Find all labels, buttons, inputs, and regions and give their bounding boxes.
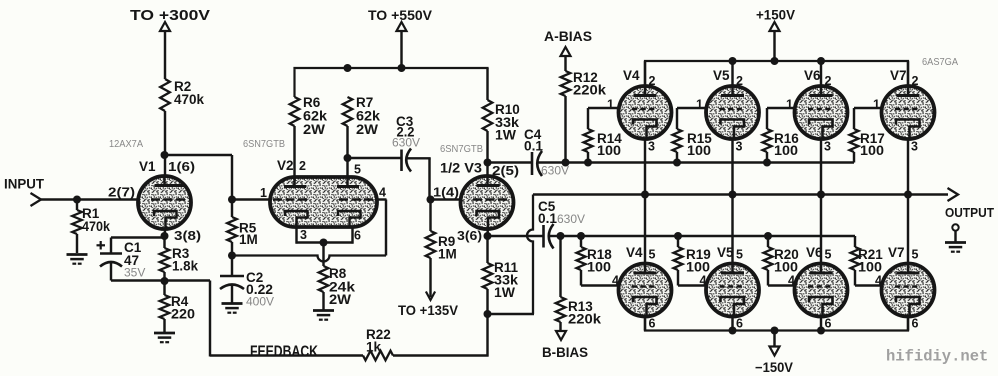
output riser with hop over C5 wire [527,195,533,315]
svg-text:3: 3 [824,140,831,154]
svg-text:100: 100 [774,143,798,158]
node V4 upper cathode on output rail [641,191,649,199]
svg-text:V7: V7 [888,245,905,260]
node R12 bias junction [562,159,570,167]
arrow to +135V [426,292,435,301]
svg-text:1.8k: 1.8k [172,259,198,274]
node V1 plate junction [161,151,169,159]
node brail feed [771,327,779,335]
node R5 top junction [228,196,236,204]
V3 plate [486,176,489,186]
svg-text:3: 3 [648,140,655,154]
svg-text:2(7): 2(7) [108,186,135,200]
svg-text:1: 1 [696,98,703,112]
svg-text:6: 6 [354,229,361,243]
resistor R3 [163,236,165,248]
svg-text:100: 100 [687,143,711,158]
svg-text:6: 6 [825,317,832,331]
wire grid to V3 [431,198,462,200]
resistor R9 [429,200,431,232]
node V3 plate junction [484,159,492,167]
wire plate node down to V3 [486,163,488,187]
svg-text:100: 100 [597,143,621,158]
resistor R5 [231,200,233,218]
svg-text:1W: 1W [495,128,516,143]
svg-text:2W: 2W [356,122,378,137]
wire V6 upper plate-cathode column [820,61,822,195]
wire V7 upper grid stub [854,107,884,109]
svg-text:hifidiy.net: hifidiy.net [886,348,988,366]
svg-text:100: 100 [686,260,710,275]
node rail V6 plate [817,57,825,65]
wire +300V to R2 [164,31,166,79]
resistor R4 [163,281,165,295]
node R19 on B-bias line [674,232,682,240]
V2 right triode plate [346,177,349,187]
svg-text:V2: V2 [277,158,294,173]
node brail V5 cathode [729,327,737,335]
node V1 cathode 3(8) [161,232,169,240]
V7 lower internals [907,264,910,274]
resistor R16 [766,108,768,129]
ground below R1 [67,253,88,256]
node feedback output junction [484,310,492,318]
wire V1 plate to V2 grid [165,154,233,156]
svg-text:V1: V1 [139,159,156,174]
svg-text:A-BIAS: A-BIAS [544,29,592,44]
wire A-bias line [539,161,855,163]
resistor R22 [363,351,393,361]
V5 upper internals [731,86,734,96]
wire +150V feed [773,31,775,61]
svg-text:6AS7GA: 6AS7GA [922,56,958,68]
node R20 on B-bias line [764,232,772,240]
wire V7 upper plate-cathode column [907,61,909,195]
svg-text:OUTPUT: OUTPUT [945,205,994,220]
wire V6 lower grid stub [768,284,797,286]
wire V7 lower plate-cathode column [907,195,909,331]
svg-text:400V: 400V [246,295,274,309]
ground below R8 [313,309,334,312]
resistor R15 [676,108,678,129]
V2 right triode grid dashes [339,198,374,200]
wire V5 lower plate-cathode column [731,195,733,331]
wire V4 upper grid stub [588,107,621,109]
node R3 R4 junction [161,277,169,285]
tube V2 envelope [270,177,377,227]
svg-text:TO +135V: TO +135V [398,303,458,318]
wire R2 to V1 plate [164,111,166,185]
node rail feed [771,57,779,65]
svg-text:1: 1 [260,186,267,200]
svg-text:1/2 V3: 1/2 V3 [440,161,483,176]
tube V7 lower [882,264,935,317]
svg-text:220k: 220k [573,83,607,98]
ground below R4 [154,332,175,335]
svg-text:3: 3 [911,140,918,154]
input arrow [31,193,42,206]
resistor R18 [577,247,586,270]
svg-text:1(6): 1(6) [168,160,195,174]
wire V3 cathode to C5 [488,235,543,237]
svg-text:470k: 470k [174,92,204,107]
V1 plate [163,176,166,186]
V1 cathode [154,211,177,229]
resistor R19 [674,247,683,270]
svg-text:6: 6 [649,317,656,331]
node R16 on A-bias line [763,159,771,167]
svg-text:3: 3 [736,140,743,154]
wire +550V to bus [400,31,402,68]
V5 lower internals [731,264,734,274]
svg-text:1M: 1M [239,232,258,247]
node R15 on A-bias line [673,159,681,167]
wire cathode junction to feedback riser [165,279,211,281]
svg-text:6: 6 [912,317,919,331]
V6 upper internals [820,86,823,96]
resistor R7 [343,97,353,126]
svg-text:12AX7A: 12AX7A [109,138,143,150]
svg-text:V4: V4 [626,245,643,260]
wire B-bias line [561,235,856,237]
svg-text:630V: 630V [392,136,420,150]
svg-text:B-BIAS: B-BIAS [542,345,588,360]
svg-text:1: 1 [607,98,614,112]
resistor R1 [76,200,78,211]
wire R5 junction to V2 pin 4 with hop over R8 wire [232,256,386,262]
output arrow [948,188,959,201]
V3 grid dashes [473,198,508,200]
svg-text:0.1: 0.1 [524,139,543,154]
svg-text:1M: 1M [438,247,457,262]
svg-text:2W: 2W [303,122,325,137]
V2 left triode plate [293,177,296,187]
svg-text:5: 5 [825,248,832,262]
V7 upper internals [907,86,910,96]
wire V4 lower plate-cathode column [644,195,646,331]
node R7 top [344,64,352,72]
output ground symbol [952,224,958,230]
svg-text:1k: 1k [366,340,382,355]
node brail V6 cathode [817,327,825,335]
resistor R17 [853,108,855,129]
wire output rail [533,193,948,195]
node V6 upper cathode on output rail [817,191,825,199]
resistor R8 [322,243,324,267]
tube V4 upper [619,86,672,139]
node V7 upper cathode on output rail [904,191,912,199]
wire feedback line [210,354,363,356]
node +550 feed [398,64,406,72]
V2 cathode bus [295,227,297,244]
wire V7 lower grid stub [855,284,884,286]
node V5 upper cathode on output rail [729,191,737,199]
svg-text:5: 5 [354,163,361,177]
V4 upper internals [644,86,647,96]
resistor R6 [290,97,300,126]
tube V7 upper [882,86,935,139]
svg-text:1W: 1W [494,285,515,300]
node R13 junction [557,232,565,240]
tube V1 [138,176,191,229]
capacitor C4 [488,161,532,163]
arrow to B-BIAS [556,331,566,340]
wire V6 upper grid stub [767,107,797,109]
capacitor C1 plus sign [97,244,106,246]
node V3 cathode 3(6) [484,232,492,240]
svg-text:100: 100 [858,260,882,275]
svg-text:V4: V4 [623,68,640,83]
svg-text:5: 5 [736,248,743,262]
V2 pin 4 grid stub [377,198,387,200]
node V2 cathode junction [320,239,328,247]
power arrow +150V [770,22,780,31]
node V3 grid junction [427,196,435,204]
V2 left triode grid dashes [273,198,308,200]
svg-text:1: 1 [786,98,793,112]
power arrow +300V [160,22,170,31]
tube V5 lower [706,264,759,317]
svg-text:V6: V6 [806,245,823,260]
power arrow -150V [770,347,780,356]
wire V5 upper plate-cathode column [731,61,733,195]
svg-text:1(4): 1(4) [433,186,459,200]
svg-text:V6: V6 [804,68,821,83]
svg-text:100: 100 [774,260,798,275]
resistor R11 [486,236,488,263]
V3 cathode [477,211,500,229]
node R18 on B-bias line [577,232,585,240]
svg-text:INPUT: INPUT [4,177,45,192]
tube V5 upper [706,86,759,139]
svg-text:0.1: 0.1 [538,211,557,226]
capacitor C3 [348,157,401,159]
svg-text:100: 100 [860,143,884,158]
V2 right triode cathode [338,211,361,227]
power arrow A-BIAS [561,47,571,56]
capacitor C1 [110,238,112,254]
resistor R14 [587,108,589,129]
node R5 C2 junction [228,252,236,260]
wire V5 upper grid stub [677,107,709,109]
svg-text:V7: V7 [890,68,907,83]
capacitor C5 [542,225,545,248]
resistor R12 [564,56,566,71]
resistor R21 [851,247,860,270]
wire V4 lower grid stub [581,284,621,286]
svg-text:220: 220 [171,307,195,322]
wire to output riser [488,313,535,315]
svg-text:3(6): 3(6) [457,229,482,243]
svg-text:6SN7GTB: 6SN7GTB [243,138,285,150]
svg-text:−150V: −150V [755,360,793,375]
node rail V5 plate [729,57,737,65]
svg-text:V5: V5 [717,245,734,260]
node R14 on A-bias line [584,159,592,167]
svg-text:5: 5 [912,248,919,262]
svg-text:5: 5 [649,248,656,262]
tube V3 [461,176,514,229]
svg-text:1: 1 [873,98,880,112]
svg-text:100: 100 [587,260,611,275]
ground below C2 [222,302,243,305]
wire V6 lower plate-cathode column [820,195,822,331]
tube V6 upper [795,86,848,139]
wire +150V rail [644,62,646,86]
resistor R20 [764,247,773,270]
svg-text:FEEDBACK: FEEDBACK [250,344,319,361]
svg-text:3: 3 [300,228,307,242]
wire V5 lower grid stub [678,284,709,286]
svg-text:V5: V5 [713,68,730,83]
power arrow +550V [397,22,407,31]
svg-text:35V: 35V [124,266,145,280]
V1 grid dashes [151,198,185,200]
svg-text:3(8): 3(8) [174,229,201,243]
resistor R13 [559,236,561,297]
svg-text:TO +550V: TO +550V [368,7,433,23]
svg-text:2W: 2W [329,292,351,307]
wire -150V rail [644,317,646,331]
tube V6 lower [795,264,848,317]
tube V4 lower [619,264,672,317]
node input junction [73,196,81,204]
resistor R2 [160,79,170,111]
node C3 tap on V2 plate [344,154,352,162]
wire input to V1 grid [41,198,139,200]
V4 lower internals [644,264,647,274]
wire +550V bus [293,69,295,97]
svg-text:220k: 220k [568,312,602,327]
capacitor C2 [231,256,233,277]
svg-text:630V: 630V [557,212,585,226]
resistor R10 [483,100,493,131]
svg-text:4: 4 [379,186,386,200]
wire V4 upper plate-cathode column [644,61,646,195]
wire -150V feed [773,331,775,347]
svg-text:2: 2 [299,159,306,173]
V2 left triode cathode [285,211,308,227]
svg-text:+150V: +150V [756,8,795,23]
svg-text:TO +300V: TO +300V [130,7,210,24]
wire R22 to output node [393,354,489,356]
svg-text:6: 6 [736,317,743,331]
V6 lower internals [820,264,823,274]
svg-text:6SN7GTB: 6SN7GTB [440,143,483,155]
svg-text:470k: 470k [82,219,110,234]
